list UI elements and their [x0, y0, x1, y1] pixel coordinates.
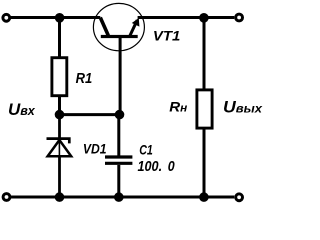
resistor Rn load [197, 90, 212, 128]
wire base node horizontal [60, 113, 120, 116]
resistor R1 [52, 58, 67, 96]
svg-text:VD1: VD1 [83, 140, 107, 156]
wire R1 top lead [58, 18, 61, 57]
terminal input minus [3, 194, 10, 201]
transistor VT1 [93, 3, 144, 50]
wire C1 top lead [117, 115, 120, 156]
node base-right junction [115, 110, 125, 120]
svg-text:Uвх: Uвх [8, 100, 36, 119]
terminal output plus [236, 14, 243, 21]
node bottom-right junction [199, 192, 209, 202]
svg-text:C1: C1 [139, 141, 153, 157]
svg-text:VT1: VT1 [153, 28, 181, 44]
wire R1 bottom lead [58, 97, 61, 115]
svg-text:100.: 100. [138, 158, 163, 175]
wire Rn top lead [203, 18, 206, 90]
wire VD1 branch lead [58, 115, 61, 197]
wire C1 bottom lead [117, 165, 120, 197]
capacitor C1 [105, 157, 132, 163]
svg-text:Rн: Rн [169, 98, 187, 114]
node top junction A [55, 13, 65, 23]
wire top rail right segment [138, 16, 235, 19]
zener diode VD1 [47, 139, 72, 157]
wire bottom rail [10, 196, 234, 199]
node base-left junction [55, 110, 65, 120]
node bottom-middle junction [114, 192, 124, 202]
terminal output minus [236, 194, 243, 201]
wire top rail left segment [10, 16, 101, 19]
node bottom-left junction [55, 192, 65, 202]
svg-text:Uвых: Uвых [223, 99, 263, 117]
node top-right junction [199, 13, 209, 23]
wire base lead vertical [119, 37, 122, 115]
svg-text:0: 0 [168, 158, 175, 175]
terminal input plus [3, 14, 10, 21]
svg-text:R1: R1 [76, 70, 93, 87]
wire Rn bottom lead [203, 129, 206, 198]
